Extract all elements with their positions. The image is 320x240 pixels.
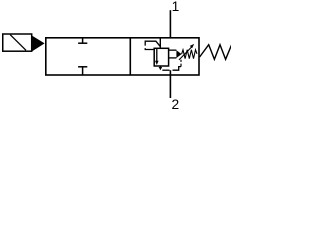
port 2 line: [169, 70, 171, 98]
drain stem: [159, 66, 161, 67]
solenoid coil diagonal: [10, 35, 26, 51]
small spring: [182, 50, 197, 59]
valve body rectangle: [46, 38, 199, 75]
solenoid actuator triangle: [32, 36, 44, 52]
relief valve square: [154, 48, 168, 66]
dashed drain line dash 1: [162, 69, 169, 71]
proportional wedge triangle: [176, 50, 181, 58]
drain arrow head: [159, 67, 163, 70]
svg-text:1: 1: [172, 0, 180, 14]
solenoid coil box: [3, 34, 32, 51]
adjustment arrow head: [190, 44, 194, 48]
port 1 line: [169, 10, 171, 38]
dashed riser to spring chamber: [180, 60, 182, 67]
adjustment arrow line: [179, 47, 192, 60]
svg-text:2: 2: [172, 97, 180, 111]
blocked port T top: [78, 38, 87, 43]
inlet connector into square top: [159, 38, 161, 48]
position divider: [129, 38, 131, 75]
relief internal flow arrow head: [155, 61, 159, 65]
relief internal flow arrow stem: [156, 49, 158, 61]
blocked port T bottom: [78, 67, 87, 75]
big spring: [200, 45, 232, 60]
pilot hook dashed: upper corner + diagonal: [145, 41, 160, 46]
stub line top: [169, 49, 177, 51]
pilot hook dashed: lower corner into square: [145, 48, 154, 49]
dashed drain line dash 2 + step up: [173, 67, 182, 71]
stub line bottom: [169, 57, 177, 59]
